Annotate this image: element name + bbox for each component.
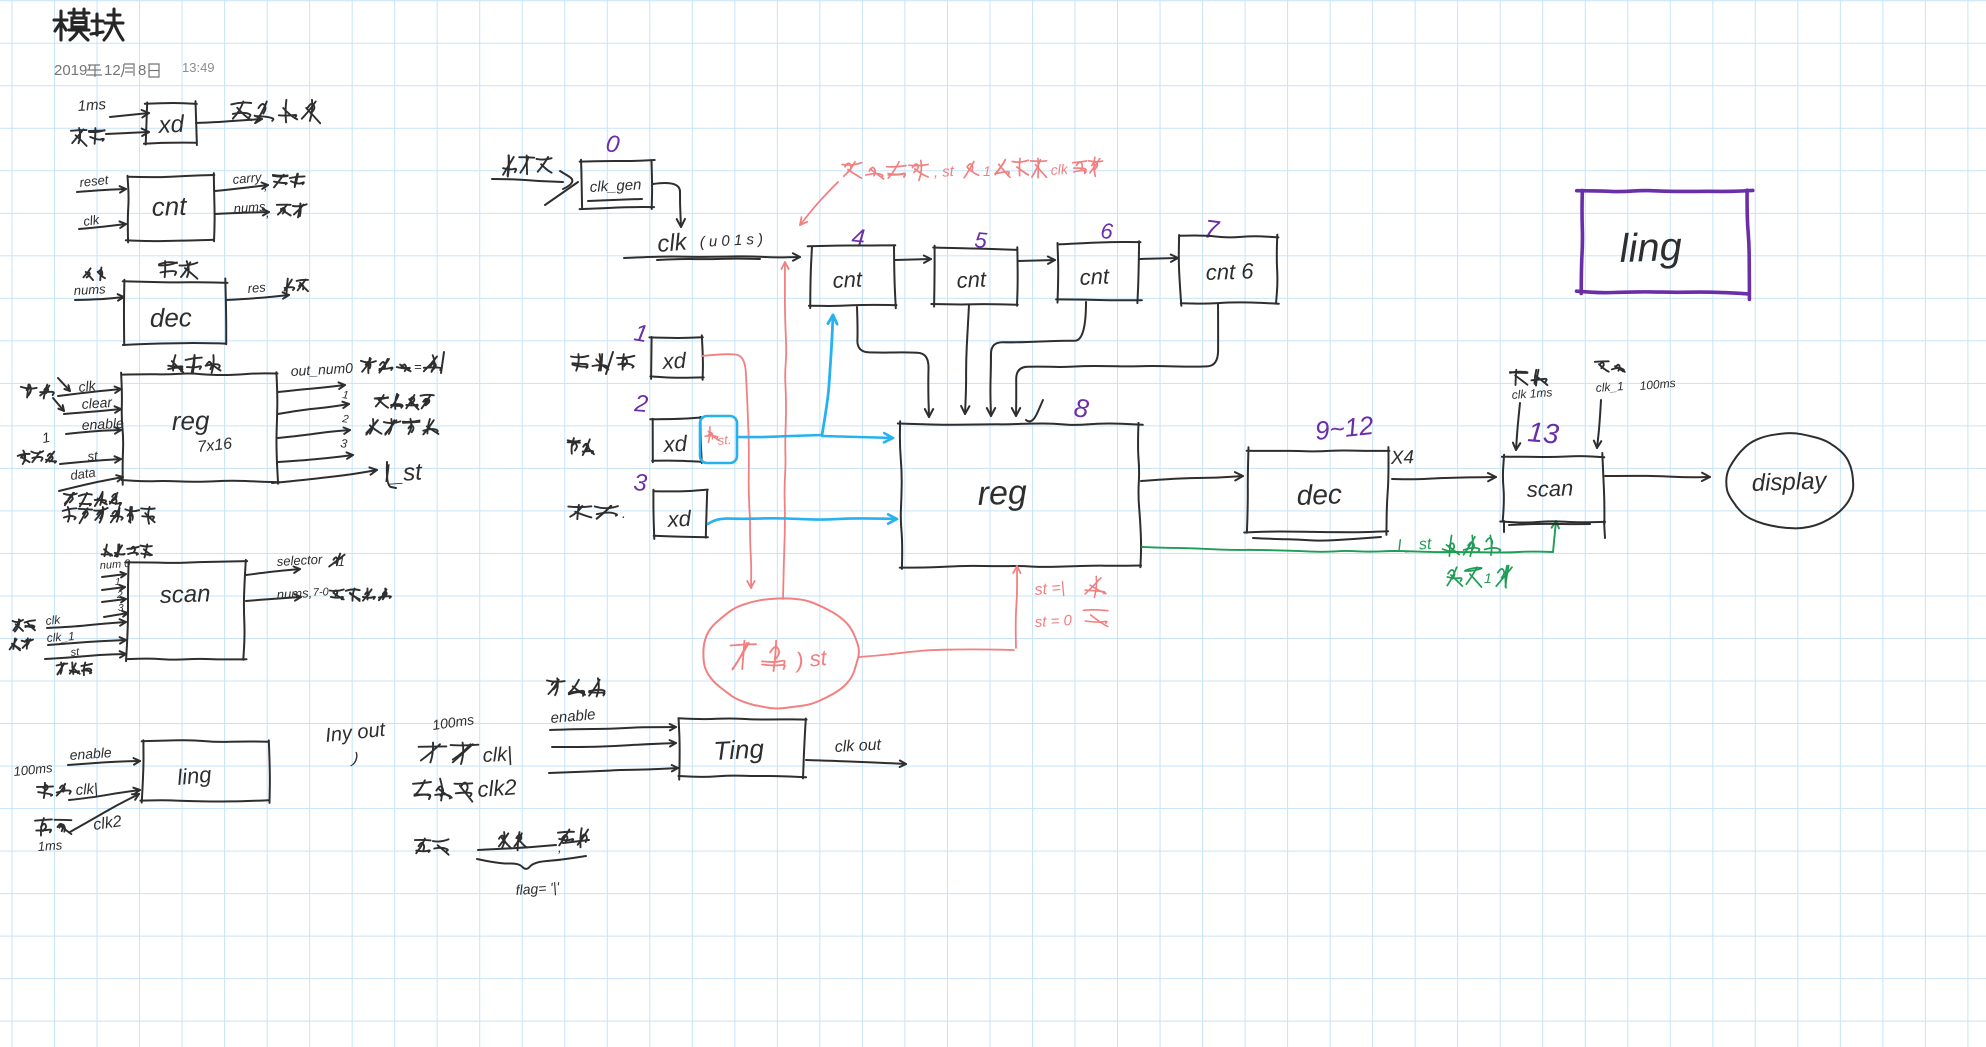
wire nums output of scan (246, 597, 301, 601)
svg-text:xd: xd (666, 506, 692, 532)
blue highlight box around 或st note (700, 416, 737, 463)
module box xd #3 (654, 490, 708, 492)
black arrow clk_1 down into scan (1597, 400, 1601, 448)
red arrow from note to clk net (800, 182, 838, 225)
purple ling box (title box) (1577, 190, 1753, 191)
svg-text:enable: enable (69, 744, 112, 763)
wire cnt7 nums down to reg (1016, 304, 1218, 416)
svg-text:clk_gen: clk_gen (589, 176, 642, 196)
label 计数 clk1 (44, 783, 45, 798)
module box cnt #5 (933, 248, 1017, 250)
label 4位 nums (dec input) (83, 268, 90, 277)
wire carry output of cnt (215, 185, 268, 191)
svg-text:1: 1 (115, 577, 121, 588)
label 接译码器 (to decoder) (370, 419, 374, 434)
svg-text:clk: clk (656, 228, 690, 258)
svg-text:cnt: cnt (832, 266, 864, 293)
module box cnt (counter demo) (128, 175, 215, 177)
module box xd #1 (649, 336, 702, 339)
label 精频率 clk2 (413, 782, 431, 784)
module box cnt #6 (1058, 242, 1141, 244)
label 按键 with fork arrows (27, 388, 31, 394)
svg-text:1: 1 (1484, 570, 1492, 586)
svg-text:xd: xd (662, 431, 688, 457)
wire reg to dec (1141, 476, 1243, 481)
svg-text:) st: ) st (792, 645, 829, 673)
wire enable into reg (66, 430, 121, 434)
wire clk underline / net (657, 259, 760, 260)
svg-text:1ms: 1ms (37, 837, 63, 854)
label 消抖输出 (debounced output) (233, 113, 251, 117)
svg-text:display: display (1751, 467, 1829, 497)
label 按下 (press) (499, 836, 504, 843)
wire dec to scan (1392, 477, 1496, 479)
svg-text:Ting: Ting (713, 733, 765, 766)
label 计时 clk1 (430, 743, 433, 763)
wire cnt4 nums down to reg (857, 307, 929, 417)
wire clk bus to first cnt (624, 256, 800, 258)
wire cnt6 to cnt7 (1140, 258, 1178, 259)
red note 或st inside blue box (705, 436, 718, 439)
svg-text:nums: nums (73, 281, 106, 298)
label 16位数据 (16-bit data) (65, 493, 74, 504)
module box reg 7x16 (register demo) (123, 373, 278, 375)
bracket under 按下 延时 (478, 845, 556, 850)
svg-text:selector: selector (276, 552, 323, 569)
svg-text:,: , (558, 840, 562, 855)
module box xd #2 (650, 417, 703, 419)
svg-text:8: 8 (138, 62, 146, 79)
wire clk_1 into scan (48, 640, 126, 645)
svg-text:st.: st. (717, 432, 732, 448)
blue wire from xd3 to reg (708, 518, 897, 524)
label 开始/暂停 (start/pause) (572, 363, 587, 367)
label 4位输出 (4-bit output) (375, 397, 388, 399)
wire clk1 into Ting (552, 743, 676, 747)
tick mark near reg top (1026, 400, 1043, 421)
module box cnt 6 #7 (1180, 236, 1279, 238)
red wire AND-gate st sense line (vertical) (783, 262, 786, 599)
svg-text:scan: scan (159, 580, 211, 609)
module box Ting (678, 718, 806, 719)
svg-text:( u 0 1 s ): ( u 0 1 s ) (699, 231, 763, 251)
black arrow clk down into scan (1516, 403, 1520, 450)
svg-text:ling: ling (176, 761, 213, 790)
wire clk into reg (58, 389, 121, 396)
svg-text:2: 2 (632, 390, 649, 418)
wire res output of dec (226, 295, 289, 300)
wire clk2 into Ting (549, 768, 678, 773)
svg-text:st = 0: st = 0 (1034, 612, 1073, 631)
svg-text:dec: dec (150, 302, 192, 333)
module box scan (main) (1502, 456, 1604, 457)
svg-text:12: 12 (104, 62, 121, 79)
svg-text:2019: 2019 (54, 62, 87, 79)
wire enable into Ting (550, 727, 676, 730)
svg-text:9~12: 9~12 (1313, 410, 1375, 446)
wire st into reg (60, 459, 121, 464)
svg-text:carry: carry (232, 169, 264, 187)
page title 模块 (printed) (54, 9, 123, 40)
wire clk into scan (47, 622, 126, 628)
red wire from xd1 to state circle (702, 354, 750, 520)
under-brace for flag (477, 856, 586, 869)
wire input into clk_gen with big arrowhead (492, 179, 563, 182)
svg-text:num 0: num 0 (99, 558, 131, 572)
label 闪烁 clk_1 (13, 638, 15, 649)
module box ling (blink demo) (142, 740, 269, 742)
svg-text:ling: ling (1619, 225, 1683, 271)
wire arrow into xd top input (110, 113, 149, 117)
label 统响 (416, 839, 425, 854)
svg-text:1: 1 (338, 555, 345, 569)
svg-text:clk: clk (45, 612, 62, 628)
svg-text:nums,: nums, (276, 585, 312, 602)
svg-text:cnt: cnt (151, 191, 188, 222)
svg-text:st =|: st =| (1034, 579, 1066, 599)
svg-text:clk out: clk out (834, 737, 882, 756)
svg-text:clk_1: clk_1 (1595, 379, 1624, 395)
svg-text:dec: dec (1296, 478, 1342, 511)
label 衬相 clk 1ms above scan (1515, 376, 1527, 385)
svg-text:1ms: 1ms (77, 96, 107, 115)
wire num0 into scan (102, 574, 126, 577)
svg-text:13: 13 (1526, 416, 1560, 450)
red state circle 状态 st (703, 598, 859, 708)
label 清零 (clear) (572, 443, 577, 450)
wire reg output bit1 (278, 404, 349, 414)
wire nums output of cnt (215, 212, 269, 214)
svg-text:4: 4 (850, 224, 866, 252)
svg-text:, st: , st (933, 163, 955, 181)
module box clk_gen (580, 160, 655, 162)
wire reg bottom l_st output (272, 470, 377, 483)
svg-text:,: , (266, 205, 270, 220)
wire nums into dec (75, 297, 124, 300)
wire output of xd (196, 119, 262, 123)
svg-text:clk 1ms: clk 1ms (1511, 385, 1553, 402)
label 延时 (delay) (562, 835, 567, 843)
label 记录 (record) (575, 512, 591, 518)
wire clk2 into ling (70, 794, 139, 832)
svg-text:.: . (622, 505, 626, 521)
label 按键 (key input) (72, 129, 83, 143)
wire clk out of Ting (806, 760, 906, 764)
svg-text:l_st: l_st (384, 458, 424, 488)
svg-text:scan: scan (1526, 475, 1573, 502)
svg-text:7x16: 7x16 (197, 435, 233, 456)
module box reg (main register) (898, 423, 1143, 424)
label 扫描 clk (13, 620, 20, 630)
svg-text:=: = (414, 359, 422, 374)
svg-text:7-0: 7-0 (313, 586, 330, 599)
blue wire from xd2/or-st to reg and up to cnt4 (737, 435, 822, 437)
wire arrow into xd bottom input (106, 132, 149, 134)
wire cnt6 nums down to reg (990, 302, 1086, 416)
wire data into reg (59, 477, 123, 491)
wire reg output bit3 (278, 455, 353, 462)
svg-text:flag= '|': flag= '|' (515, 879, 561, 898)
svg-text:reg: reg (977, 473, 1028, 513)
module box scan (scan demo) (125, 561, 247, 563)
label 寄存器 (register) (168, 366, 182, 369)
wire clk into cnt (79, 224, 126, 229)
wire clk_gen output stepping down (653, 183, 681, 227)
label 译码输出 (decoder outputs) (105, 545, 107, 557)
wire reg output bit2 (278, 430, 350, 438)
module box xd U-debounce (145, 102, 197, 105)
svg-text:reg: reg (172, 405, 211, 436)
green wire l_st from reg to scan (1142, 547, 1553, 552)
svg-text:xd: xd (157, 111, 185, 139)
svg-text:cnt: cnt (1079, 263, 1111, 290)
svg-text:13:49: 13:49 (182, 60, 215, 75)
svg-text:res: res (247, 279, 267, 296)
display bubble (1726, 433, 1853, 528)
label 开关与 (switch AND) (547, 681, 565, 682)
svg-text:xd: xd (661, 348, 687, 374)
svg-text:nums: nums (233, 199, 266, 216)
wire clk1 into ling (69, 790, 140, 800)
label 闪烁 clk_1 100ms above scan (1600, 362, 1604, 368)
svg-text:clk|: clk| (482, 743, 513, 767)
label 8位输入 (8-bit input) (508, 156, 509, 176)
svg-text:1: 1 (983, 163, 991, 179)
wire reset into cnt (77, 189, 126, 192)
wire reg output bit0 (278, 385, 345, 392)
label 闪烁级 clk2 (35, 819, 52, 820)
label 4个计数器输出 (4 counter outputs) (68, 507, 70, 522)
red note 与运算 st为1时计数clk生效 (842, 163, 861, 165)
module box cnt #4 (808, 245, 896, 246)
svg-text:clk2: clk2 (477, 774, 518, 802)
wire st into scan (45, 654, 126, 659)
module box dec (main decoder) (1247, 449, 1390, 452)
wire selector output of scan (246, 569, 300, 575)
svg-text:l _ st: l _ st (1397, 536, 1432, 555)
wire cnt5 nums down to reg (965, 305, 969, 414)
svg-text:X4: X4 (1389, 447, 1414, 469)
svg-text:cnt 6: cnt 6 (1205, 258, 1254, 285)
green note 为1不闪 (1448, 570, 1454, 579)
red wire state to reg bottom (859, 649, 1014, 657)
svg-text:reset: reset (79, 172, 111, 190)
wire clear into reg (64, 409, 121, 414)
wire cnt4 to cnt5 (895, 259, 931, 260)
module box dec (decoder demo) (123, 281, 228, 283)
wire scan to display (1605, 476, 1710, 477)
svg-text:clk: clk (1050, 161, 1069, 178)
svg-text:out_num0: out_num0 (290, 360, 353, 379)
label 译码 (decode) (161, 271, 177, 275)
svg-text:,: , (264, 178, 268, 193)
svg-text:cnt: cnt (956, 266, 988, 293)
wire enable into ling (68, 761, 140, 765)
wire cnt5 to cnt6 (1018, 260, 1055, 261)
